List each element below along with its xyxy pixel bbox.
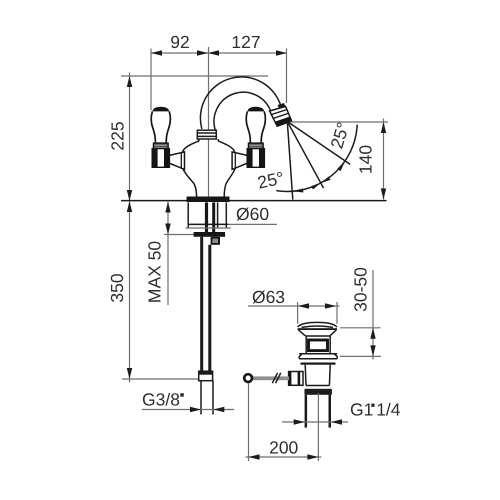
dimension MAX 50	[167, 201, 169, 305]
svg-text:127: 127	[231, 32, 260, 52]
dimension 225	[129, 73, 131, 202]
dimension 200	[248, 383, 250, 461]
mounting nut	[211, 237, 220, 245]
svg-text:MAX 50: MAX 50	[145, 241, 165, 304]
faucet body	[183, 139, 199, 152]
svg-text:225: 225	[108, 121, 128, 150]
svg-text:1/4: 1/4	[376, 400, 401, 420]
svg-text:140: 140	[356, 145, 376, 174]
dimension 127	[208, 52, 287, 54]
svg-text:Ø60: Ø60	[236, 204, 269, 224]
drain flange	[298, 322, 337, 327]
supply fitting G3/8	[199, 371, 213, 381]
spray arc	[276, 125, 357, 192]
svg-text:350: 350	[107, 273, 127, 302]
svg-text:G1: G1	[350, 400, 373, 420]
spray line 2	[287, 122, 323, 189]
mounting shank	[187, 202, 189, 228]
overflow window	[309, 340, 328, 351]
supply pipe	[200, 237, 203, 372]
spout outer curve	[200, 77, 281, 129]
svg-text:92: 92	[170, 32, 189, 52]
svg-text:G3/8: G3/8	[142, 390, 180, 410]
base flange	[187, 197, 230, 203]
spray line 1	[287, 122, 293, 200]
rod ball	[244, 374, 252, 382]
countertop line	[121, 200, 387, 202]
extension line spout top	[121, 75, 268, 77]
mounting washer	[194, 232, 226, 237]
centerline faucet	[208, 47, 210, 197]
spray line 3	[287, 122, 350, 165]
spout inner curve	[214, 92, 271, 131]
supply tube end	[200, 381, 202, 415]
svg-text:200: 200	[269, 438, 298, 458]
svg-text:30-50: 30-50	[351, 267, 371, 312]
left handle	[151, 107, 184, 170]
svg-text:Ø63: Ø63	[252, 287, 285, 307]
spout collar	[197, 130, 216, 139]
drain body	[305, 336, 307, 354]
right handle	[232, 107, 265, 170]
drain nut	[299, 354, 337, 359]
dimension 140	[290, 121, 388, 123]
pop-up rod fitting	[289, 372, 303, 386]
drain body lower	[304, 365, 307, 386]
dimension 92	[151, 52, 208, 54]
aerator	[270, 103, 292, 126]
dimension 350	[129, 201, 131, 383]
pop-up rod	[253, 376, 289, 380]
tailpipe	[305, 395, 308, 428]
drain thread	[305, 389, 332, 395]
rod break marks	[272, 373, 277, 383]
